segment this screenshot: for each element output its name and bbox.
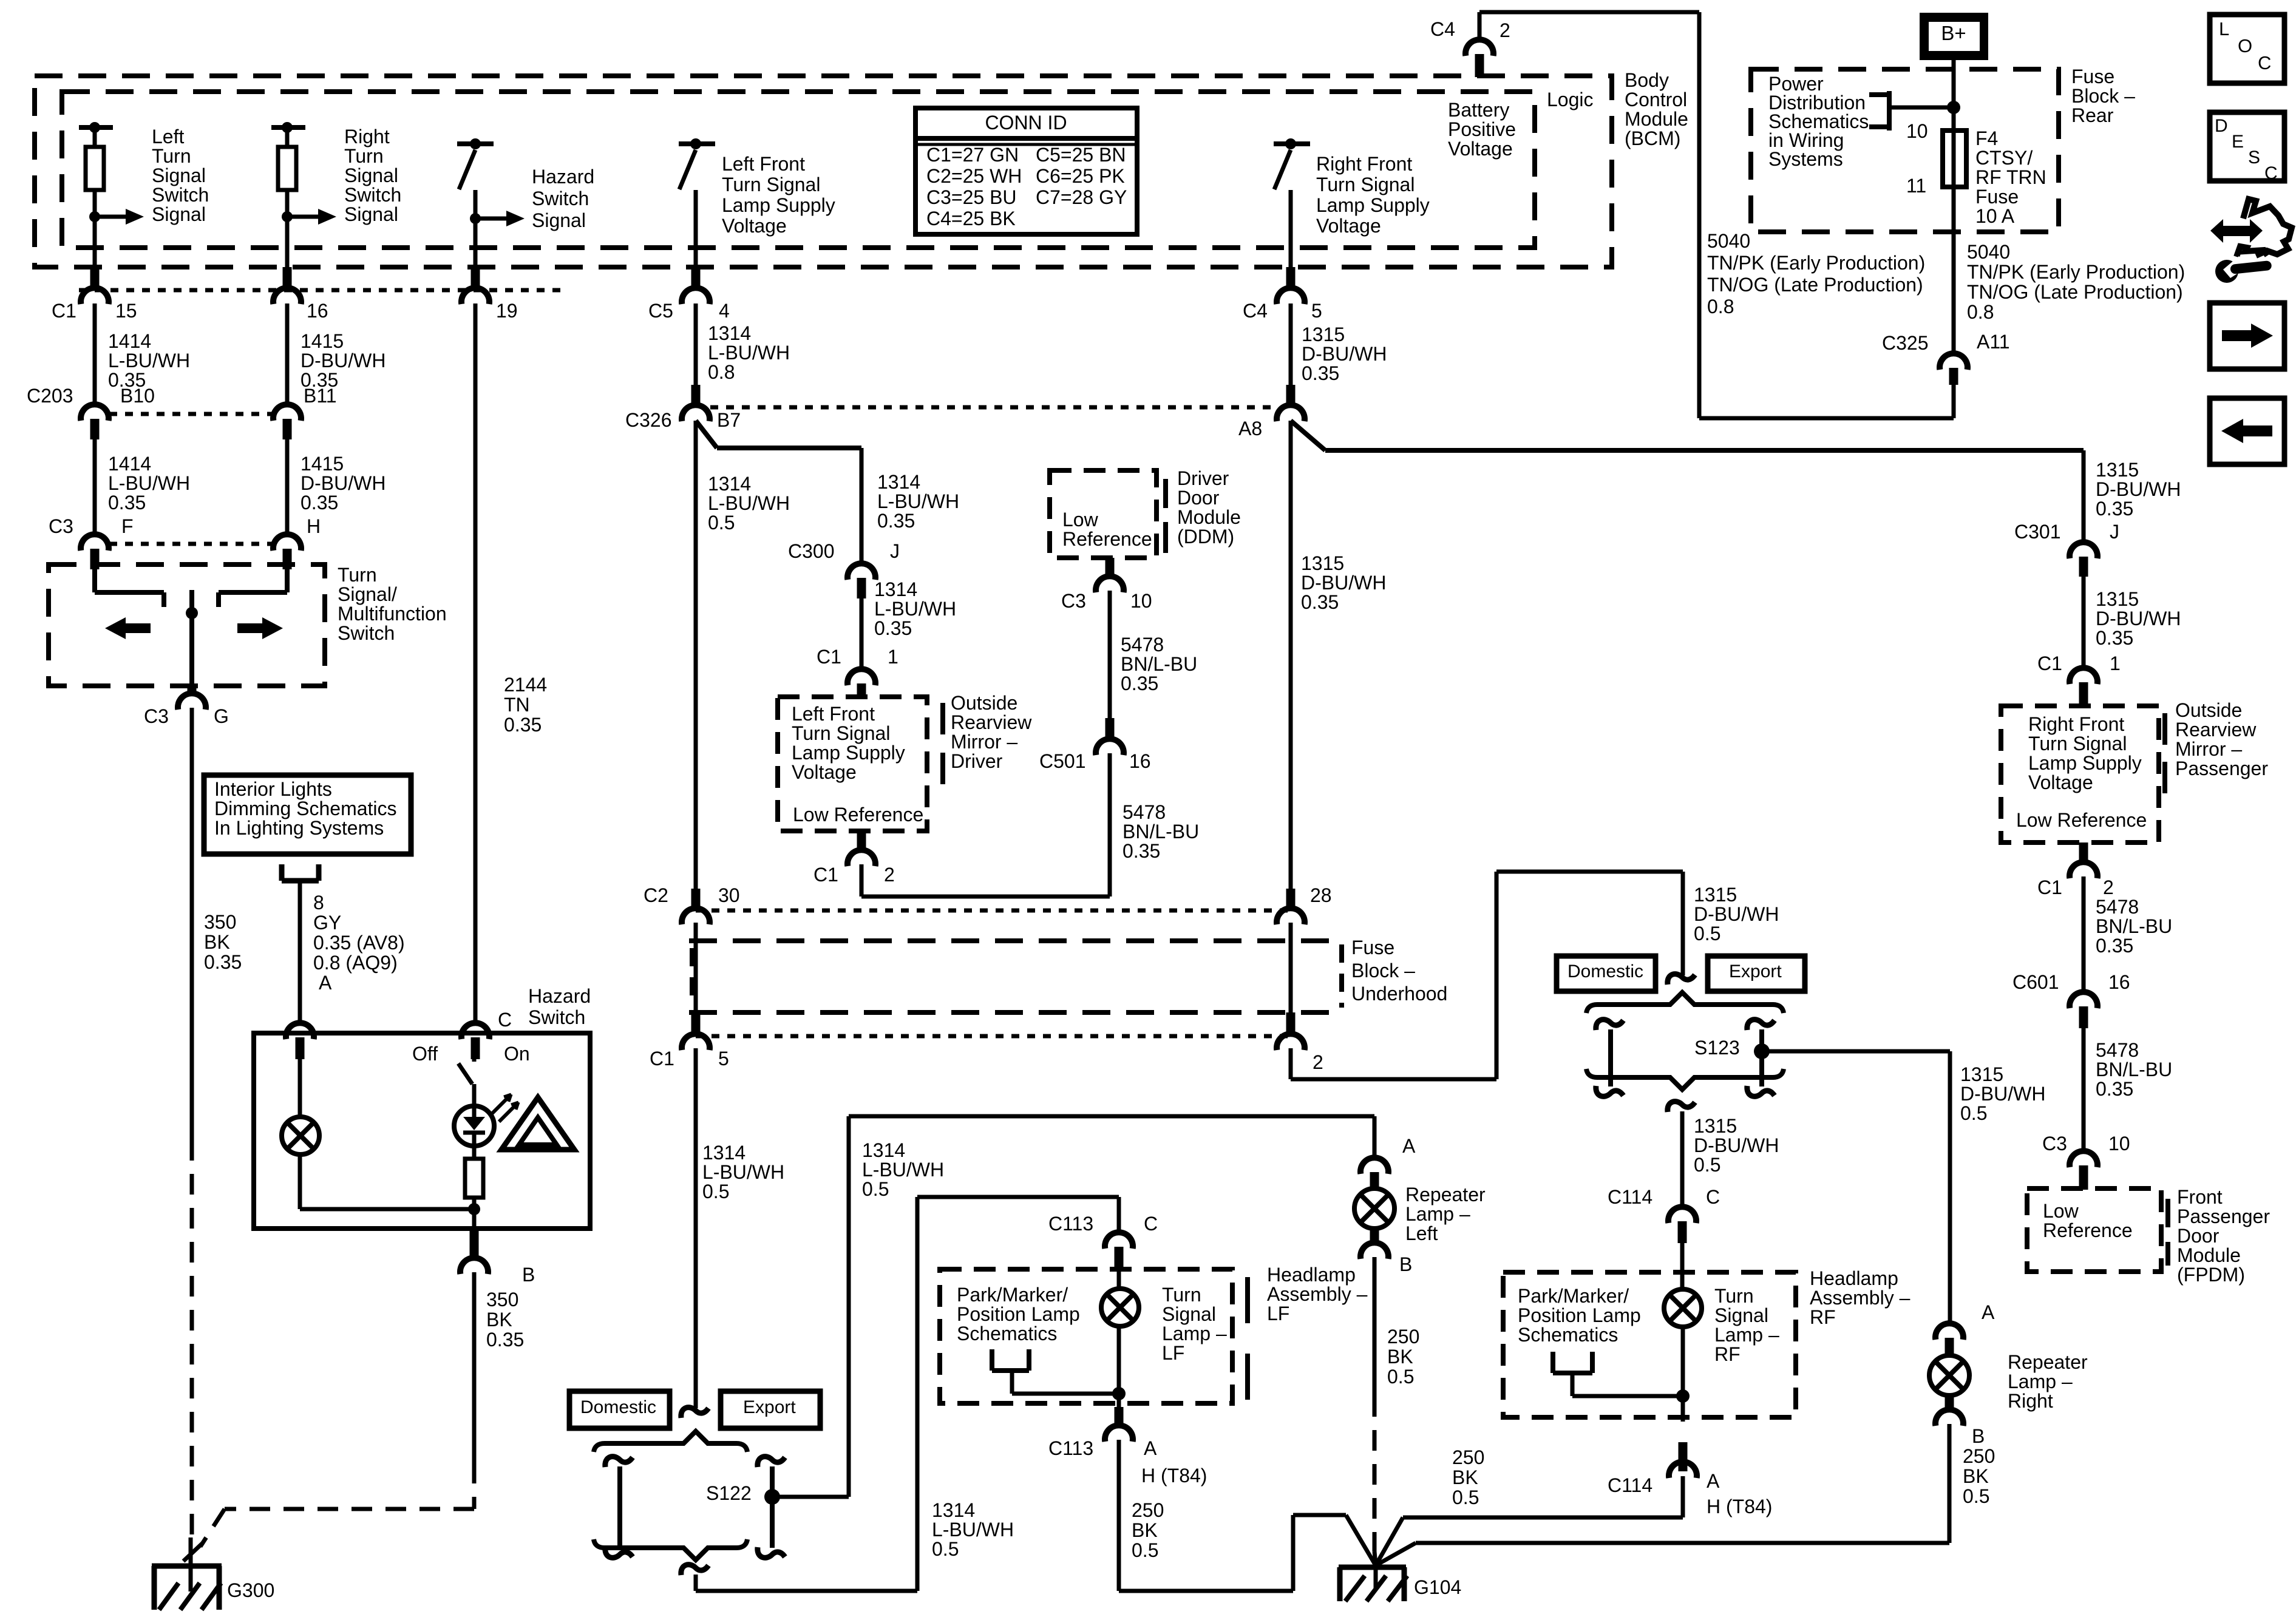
svg-text:BK: BK xyxy=(1963,1465,1989,1487)
label Hazard Switch Signal xyxy=(532,166,594,231)
svg-text:Lamp Supply: Lamp Supply xyxy=(1316,194,1430,216)
svg-text:C5: C5 xyxy=(648,300,673,322)
label pin 5 xyxy=(718,1048,729,1070)
label pin 2 xyxy=(1500,19,1510,41)
svg-text:1315: 1315 xyxy=(1694,884,1737,906)
svg-text:BN/L-BU: BN/L-BU xyxy=(1123,821,1199,842)
svg-text:TN: TN xyxy=(504,694,530,716)
variant box Export (S122) xyxy=(721,1391,820,1428)
table CONN ID xyxy=(915,108,1137,234)
label wire 2144 TN 0.35 xyxy=(504,674,547,736)
svg-text:250: 250 xyxy=(1132,1499,1164,1521)
label wire 250 BK 0.5 (repeater left) xyxy=(1387,1326,1419,1388)
svg-text:5040: 5040 xyxy=(1967,241,2010,263)
label C xyxy=(498,1009,512,1031)
svg-text:Body: Body xyxy=(1625,69,1669,91)
connector hazard switch pin C xyxy=(461,1023,489,1059)
svg-text:Positive: Positive xyxy=(1448,118,1516,140)
label pin 1 xyxy=(888,646,898,668)
svg-text:Voltage: Voltage xyxy=(722,215,787,237)
lamp: repeater lamp left xyxy=(1354,1188,1394,1229)
label Body Control Module (BCM) xyxy=(1625,69,1688,149)
svg-text:C2=25 WH: C2=25 WH xyxy=(926,165,1022,187)
svg-text:J: J xyxy=(890,540,900,562)
label wire 5478 BN/L-BU 0.35 (upper right) xyxy=(2096,896,2172,957)
svg-text:BK: BK xyxy=(1452,1466,1478,1488)
svg-text:Rearview: Rearview xyxy=(951,711,1032,733)
label Low Reference (DDM) xyxy=(1062,509,1152,550)
svg-text:A: A xyxy=(1402,1135,1416,1157)
wire 5478 from C601 to FPDM C3-10 xyxy=(2082,1028,2086,1153)
svg-text:Turn: Turn xyxy=(152,145,191,167)
label Left Front Turn Signal Lamp Supply Voltage xyxy=(722,153,835,237)
svg-text:RF: RF xyxy=(1714,1343,1741,1365)
svg-text:28: 28 xyxy=(1310,884,1332,906)
svg-text:D-BU/WH: D-BU/WH xyxy=(1960,1083,2045,1105)
svg-text:1315: 1315 xyxy=(1960,1063,2003,1085)
svg-text:0.35: 0.35 xyxy=(2096,935,2133,957)
svg-text:5478: 5478 xyxy=(1121,634,1164,656)
label J xyxy=(2110,521,2119,543)
svg-text:5040: 5040 xyxy=(1707,230,1750,252)
svg-text:Turn Signal: Turn Signal xyxy=(1316,174,1415,195)
label Headlamp Assembly - LF xyxy=(1267,1264,1368,1324)
label C326 xyxy=(625,409,672,431)
connector repeater lamp left pin A xyxy=(1360,1158,1388,1189)
connector C501 pin 16 xyxy=(1096,718,1124,755)
label pin 16 xyxy=(1129,750,1151,772)
svg-text:G104: G104 xyxy=(1414,1576,1461,1598)
module box: Turn Signal/Multifunction Switch dashed boundary xyxy=(49,564,325,686)
bracket park/marker schematics (RF) xyxy=(1553,1352,1683,1396)
svg-text:C301: C301 xyxy=(2014,521,2061,543)
svg-text:Door: Door xyxy=(1177,487,1220,509)
inline connector hook above S122 xyxy=(681,1408,708,1418)
svg-text:8: 8 xyxy=(313,892,324,914)
S123 export splice column with splice dot xyxy=(1747,1020,1775,1097)
label Repeater Lamp - Left xyxy=(1405,1184,1486,1244)
connector row C1 dotted join line xyxy=(79,288,568,293)
label S123 xyxy=(1694,1037,1740,1059)
svg-text:L-BU/WH: L-BU/WH xyxy=(874,598,956,620)
svg-text:0.35: 0.35 xyxy=(1301,591,1339,613)
wire 1315 from pin 2 to S123 feeder xyxy=(1291,872,1683,1079)
label A8 xyxy=(1238,418,1262,439)
lamp: hazard switch illumination lamp xyxy=(282,1117,319,1154)
svg-text:Turn Signal: Turn Signal xyxy=(792,722,890,744)
label Power Distribution Schematics in Wiring Systems xyxy=(1768,73,1869,170)
svg-text:BK: BK xyxy=(1132,1519,1158,1541)
label C300 xyxy=(788,540,835,562)
svg-text:Low Reference: Low Reference xyxy=(793,804,923,825)
label wire 350 BK 0.35 xyxy=(204,911,242,973)
ground G104 xyxy=(1339,1564,1407,1601)
svg-text:C1: C1 xyxy=(813,864,838,886)
connector row C1/2 dotted join line xyxy=(696,1034,1291,1039)
node: left turn signal switch signal junction with arrow xyxy=(89,209,144,225)
bracket DDM label xyxy=(1163,479,1168,553)
switch: left front turn signal lamp supply driver xyxy=(679,138,715,267)
icon box DESC xyxy=(2210,112,2284,183)
svg-text:0.35: 0.35 xyxy=(2096,498,2133,520)
svg-text:C1: C1 xyxy=(52,300,76,322)
svg-text:5478: 5478 xyxy=(2096,1039,2139,1061)
svg-text:A11: A11 xyxy=(1977,331,2010,353)
connector C300 J xyxy=(847,563,875,598)
svg-text:BN/L-BU: BN/L-BU xyxy=(2096,915,2172,937)
svg-text:Switch: Switch xyxy=(532,188,589,209)
label C113 xyxy=(1048,1437,1093,1459)
wire 1414 from C203 to C3-F xyxy=(93,439,97,537)
label C1 xyxy=(2037,876,2062,898)
svg-text:Right Front: Right Front xyxy=(2028,713,2124,735)
svg-text:0.35: 0.35 xyxy=(877,510,915,532)
svg-text:On: On xyxy=(504,1043,530,1065)
label wire 1414 L-BU/WH 0.35 (lower) xyxy=(108,453,190,514)
label wire 1314 L-BU/WH 0.5 (riser upper) xyxy=(862,1139,944,1200)
label Park/Marker/Position Lamp Schematics (RF) xyxy=(1518,1285,1641,1346)
svg-text:C: C xyxy=(1144,1213,1158,1235)
svg-text:Logic: Logic xyxy=(1547,89,1594,110)
wire through fuse block (right) xyxy=(1289,923,1293,1015)
svg-text:Turn: Turn xyxy=(1714,1285,1754,1307)
svg-text:1314: 1314 xyxy=(702,1142,746,1164)
power symbol B+ xyxy=(1920,13,1988,60)
svg-text:Position Lamp: Position Lamp xyxy=(957,1303,1080,1325)
svg-text:Rear: Rear xyxy=(2071,104,2114,126)
svg-text:C6=25 PK: C6=25 PK xyxy=(1036,165,1125,187)
wire branch down to C300 xyxy=(860,448,864,566)
connector row C203 dotted join line xyxy=(109,412,273,416)
svg-text:2144: 2144 xyxy=(504,674,547,696)
label A xyxy=(1982,1301,1995,1323)
underbrace S123 xyxy=(1586,1069,1784,1090)
svg-text:5: 5 xyxy=(1311,300,1322,322)
svg-text:C1: C1 xyxy=(2037,876,2062,898)
svg-text:RF: RF xyxy=(1810,1306,1836,1328)
svg-text:A: A xyxy=(1707,1470,1720,1492)
svg-text:Switch: Switch xyxy=(152,184,209,206)
svg-text:Module: Module xyxy=(1177,506,1241,528)
label C3 xyxy=(2042,1133,2067,1154)
label wire 1415 D-BU/WH 0.35 (upper) xyxy=(301,330,385,391)
svg-text:19: 19 xyxy=(496,300,518,322)
svg-text:Signal: Signal xyxy=(344,164,398,186)
svg-text:B+: B+ xyxy=(1941,22,1966,44)
svg-text:1315: 1315 xyxy=(1694,1115,1737,1137)
svg-text:250: 250 xyxy=(1387,1326,1419,1347)
S123 domestic splice column xyxy=(1596,1020,1623,1097)
label Right Front Turn Signal Lamp Supply Voltage xyxy=(1316,153,1430,237)
underbrace S122 xyxy=(594,1539,747,1560)
label B10 xyxy=(120,385,155,407)
svg-text:C325: C325 xyxy=(1882,332,1929,354)
svg-text:0.5: 0.5 xyxy=(1132,1539,1158,1561)
svg-text:Driver: Driver xyxy=(1177,467,1229,489)
svg-text:BK: BK xyxy=(204,931,230,953)
bracket park/marker schematics (LF) xyxy=(992,1349,1119,1394)
label C2 xyxy=(644,884,668,906)
node: hazard switch internal junction xyxy=(468,1203,480,1215)
connector C301 J xyxy=(2070,542,2097,577)
svg-text:Signal: Signal xyxy=(152,203,206,225)
bracket mirror passenger label xyxy=(2162,713,2167,793)
node: right turn signal switch signal junction with arrow xyxy=(282,209,336,225)
svg-text:Turn: Turn xyxy=(1162,1284,1201,1306)
svg-text:Lamp –: Lamp – xyxy=(1714,1324,1779,1346)
resistor: left turn signal switch sense xyxy=(79,122,113,267)
svg-text:C3=25 BU: C3=25 BU xyxy=(926,186,1017,208)
svg-text:Rearview: Rearview xyxy=(2175,719,2257,741)
label Left Turn Signal Switch Signal xyxy=(152,126,209,225)
label Front Passenger Door Module (FPDM) xyxy=(2177,1186,2270,1286)
svg-text:C601: C601 xyxy=(2012,971,2059,993)
svg-text:D-BU/WH: D-BU/WH xyxy=(301,350,385,371)
svg-text:Switch: Switch xyxy=(528,1006,585,1028)
svg-text:CTSY/: CTSY/ xyxy=(1975,147,2033,169)
svg-text:Hazard: Hazard xyxy=(528,985,591,1007)
connector C1 pin 5 (underhood) xyxy=(682,1012,710,1050)
svg-text:Voltage: Voltage xyxy=(2028,771,2093,793)
label wire 1315 D-BU/WH 0.5 (S123 drop) xyxy=(1694,884,1779,944)
svg-text:Export: Export xyxy=(743,1397,796,1417)
svg-text:G300: G300 xyxy=(227,1579,274,1601)
svg-text:0.35: 0.35 xyxy=(874,617,912,639)
svg-text:5: 5 xyxy=(718,1048,729,1070)
switch: hazard switch contact in BCM xyxy=(457,138,494,267)
label Low Reference (mirror driver) xyxy=(793,804,923,825)
svg-text:1315: 1315 xyxy=(2096,588,2139,610)
resistor: hazard LED series resistor xyxy=(465,1147,483,1209)
svg-text:250: 250 xyxy=(1452,1446,1484,1468)
svg-text:C4: C4 xyxy=(1430,18,1455,40)
label wire 1314 L-BU/WH 0.35 (branch upper) xyxy=(877,471,959,532)
svg-text:0.35: 0.35 xyxy=(1121,673,1158,694)
svg-text:Domestic: Domestic xyxy=(1567,961,1643,981)
label pin 10 (fuse) xyxy=(1906,120,1928,142)
svg-text:D: D xyxy=(2215,116,2228,136)
label A11 xyxy=(1977,331,2010,353)
svg-text:Left Front: Left Front xyxy=(792,703,875,725)
label Hazard Switch xyxy=(528,985,591,1028)
svg-text:Lamp Supply: Lamp Supply xyxy=(722,194,835,216)
connector C113 pin C xyxy=(1105,1232,1133,1271)
svg-text:BK: BK xyxy=(486,1309,512,1331)
svg-text:C113: C113 xyxy=(1048,1437,1093,1459)
wire 250 BK C113-A to G104 xyxy=(1119,1440,1376,1591)
svg-text:1314: 1314 xyxy=(874,578,917,600)
svg-text:2: 2 xyxy=(884,864,895,886)
label G104 xyxy=(1414,1576,1461,1598)
module box: Outside Rearview Mirror Driver dashed boundary xyxy=(778,697,927,831)
svg-text:Voltage: Voltage xyxy=(1448,138,1513,160)
svg-text:A: A xyxy=(1982,1301,1995,1323)
label C301 xyxy=(2014,521,2061,543)
svg-text:D-BU/WH: D-BU/WH xyxy=(301,472,385,494)
svg-text:L-BU/WH: L-BU/WH xyxy=(877,490,959,512)
svg-text:C3: C3 xyxy=(2042,1133,2067,1154)
svg-text:Right: Right xyxy=(2008,1390,2053,1412)
S122 export splice column with splice dot xyxy=(758,1457,785,1558)
svg-text:Door: Door xyxy=(2177,1225,2220,1247)
label wire 5478 BN/L-BU 0.35 (lower right) xyxy=(2096,1039,2172,1100)
label On xyxy=(504,1043,530,1065)
svg-text:Right: Right xyxy=(344,126,390,147)
svg-text:Export: Export xyxy=(1729,961,1782,981)
svg-text:Position Lamp: Position Lamp xyxy=(1518,1304,1641,1326)
svg-text:L-BU/WH: L-BU/WH xyxy=(702,1161,784,1183)
wire branch from C300 to C1-1 xyxy=(860,598,864,671)
label B xyxy=(1972,1425,1985,1447)
wire jog from A8 to BCM-battery loop xyxy=(1291,421,2084,450)
connector C3 F xyxy=(81,534,109,569)
svg-text:Hazard: Hazard xyxy=(532,166,594,188)
svg-text:Reference: Reference xyxy=(1062,528,1152,550)
svg-text:C300: C300 xyxy=(788,540,835,562)
bracket FPDM label xyxy=(2165,1199,2170,1266)
svg-text:Turn: Turn xyxy=(338,564,377,586)
svg-text:B7: B7 xyxy=(717,409,741,431)
svg-text:Mirror –: Mirror – xyxy=(951,731,1017,753)
svg-text:Switch: Switch xyxy=(344,184,401,206)
svg-text:16: 16 xyxy=(307,300,328,322)
wire branch jog from B7 to mirror driver branch xyxy=(696,421,861,448)
svg-text:5478: 5478 xyxy=(2096,896,2139,918)
label C325 xyxy=(1882,332,1929,354)
label Right Front Turn Signal Lamp Supply Voltage (mirror) xyxy=(2028,713,2142,793)
label C601 xyxy=(2012,971,2059,993)
wire junction to hazard switch pin B xyxy=(472,1209,477,1230)
bracket headlamp LF label xyxy=(1245,1277,1250,1400)
wire 1315 main from C326-A8 down xyxy=(1289,421,1293,891)
svg-text:0.5: 0.5 xyxy=(702,1181,729,1202)
svg-text:C3: C3 xyxy=(144,705,169,727)
connector C3 G xyxy=(178,686,206,710)
svg-text:C114: C114 xyxy=(1608,1474,1652,1496)
svg-text:Module: Module xyxy=(1625,108,1688,130)
label pin 2 xyxy=(884,864,895,886)
svg-text:10: 10 xyxy=(2108,1133,2130,1154)
connector row C3 dotted join line xyxy=(109,542,273,546)
svg-text:(BCM): (BCM) xyxy=(1625,127,1680,149)
wire from lamp to internal junction xyxy=(300,1154,474,1209)
label pin 4 xyxy=(719,300,730,322)
svg-text:11: 11 xyxy=(1906,175,1926,197)
label C1 xyxy=(52,300,76,322)
wire from fuse to C325 xyxy=(1952,187,1956,354)
svg-text:(FPDM): (FPDM) xyxy=(2177,1264,2245,1286)
connector C3 pin 10 (DDM) xyxy=(1096,558,1124,592)
svg-text:B10: B10 xyxy=(120,385,155,407)
svg-text:Signal: Signal xyxy=(152,164,206,186)
connector C203 B11 xyxy=(273,404,301,439)
label C501 xyxy=(1039,750,1086,772)
svg-text:Lamp –: Lamp – xyxy=(1162,1323,1227,1344)
svg-text:1314: 1314 xyxy=(932,1499,975,1521)
svg-text:10 A: 10 A xyxy=(1975,205,2015,227)
connector C3 H xyxy=(273,534,301,569)
svg-text:0.35: 0.35 xyxy=(2096,1078,2133,1100)
label H (T84) (LF) xyxy=(1141,1465,1207,1486)
svg-text:0.35: 0.35 xyxy=(504,714,542,736)
svg-text:H (T84): H (T84) xyxy=(1141,1465,1207,1486)
svg-text:0.35: 0.35 xyxy=(301,492,338,514)
wire 250 BK repeater right to G104 xyxy=(1376,1424,1949,1565)
label J xyxy=(890,540,900,562)
svg-text:Lamp Supply: Lamp Supply xyxy=(2028,752,2142,774)
switch: right front turn signal lamp supply driver xyxy=(1274,138,1310,267)
inline connector hook below S122 xyxy=(681,1565,708,1575)
label C4 xyxy=(1243,300,1268,322)
svg-text:0.8: 0.8 xyxy=(1707,296,1734,317)
svg-text:Signal/: Signal/ xyxy=(338,583,397,605)
wire 2144 TN from BCM pin 19 to hazard switch C xyxy=(474,303,478,1024)
label Outside Rearview Mirror - Driver xyxy=(951,692,1032,772)
wire 1415 from C203 to C3-H xyxy=(285,439,290,537)
svg-text:Signal: Signal xyxy=(1714,1304,1768,1326)
label pin 5 xyxy=(1311,300,1322,322)
label C203 xyxy=(27,385,73,407)
svg-text:Lamp –: Lamp – xyxy=(1405,1203,1470,1225)
svg-text:C2: C2 xyxy=(644,884,668,906)
icon box arrow right xyxy=(2210,303,2284,369)
wire 5478 from DDM C3-10 to C501-16 xyxy=(1108,591,1112,740)
wire 250 BK repeater left to G104 xyxy=(1374,1257,1376,1565)
svg-text:Mirror –: Mirror – xyxy=(2175,738,2242,760)
svg-text:O: O xyxy=(2238,35,2252,56)
svg-text:1415: 1415 xyxy=(301,453,344,475)
svg-text:RF TRN: RF TRN xyxy=(1975,166,2046,188)
label wire 1315 D-BU/WH 0.35 (to C301) xyxy=(2096,459,2181,520)
svg-text:0.8: 0.8 xyxy=(708,361,735,383)
svg-text:Multifunction: Multifunction xyxy=(338,603,447,625)
connector C5 pin 4 xyxy=(682,267,710,304)
connector C2 pin 30 xyxy=(682,889,710,924)
svg-text:0.35: 0.35 xyxy=(1302,362,1339,384)
overbrace S122 xyxy=(594,1431,747,1452)
label wire 5040 TN/PK TN/OG 0.8 (left) xyxy=(1707,230,1925,317)
label C1 xyxy=(2037,653,2062,674)
label wire 250 BK 0.5 (RF) xyxy=(1452,1446,1484,1508)
svg-text:B: B xyxy=(522,1264,535,1286)
svg-text:Left: Left xyxy=(1405,1222,1438,1244)
label wire 1315 D-BU/WH 0.5 (to repeater right) xyxy=(1960,1063,2045,1124)
overbrace S123 xyxy=(1586,992,1784,1013)
svg-text:16: 16 xyxy=(2108,971,2130,993)
svg-text:C203: C203 xyxy=(27,385,73,407)
label Repeater Lamp - Right xyxy=(2008,1351,2088,1412)
svg-text:C1: C1 xyxy=(650,1048,674,1070)
wire 1315 from C4-5 to C326-A8 xyxy=(1289,303,1293,388)
icon vehicle with arrow and wrench xyxy=(2210,199,2292,283)
svg-text:15: 15 xyxy=(115,300,137,322)
svg-text:L-BU/WH: L-BU/WH xyxy=(862,1159,944,1181)
svg-text:Front: Front xyxy=(2177,1186,2223,1208)
wire 1315 from A8 jog down to C301 xyxy=(2082,450,2086,544)
svg-text:Domestic: Domestic xyxy=(580,1397,656,1417)
wire 1415 from C1-16 to C203-B11 xyxy=(285,303,290,405)
svg-text:D-BU/WH: D-BU/WH xyxy=(1302,343,1387,365)
module box: Fuse Block Rear dashed boundary xyxy=(1751,69,2059,232)
svg-text:10: 10 xyxy=(1130,590,1152,612)
label Off xyxy=(412,1043,438,1065)
connector C1 pin 1 (mirror passenger) xyxy=(2070,668,2097,707)
svg-text:CONN ID: CONN ID xyxy=(985,112,1067,134)
bracket mirror driver label xyxy=(940,703,945,784)
svg-text:Headlamp: Headlamp xyxy=(1267,1264,1356,1286)
wire left contact inside multifunction switch xyxy=(95,569,164,607)
svg-text:C1: C1 xyxy=(2037,653,2062,674)
